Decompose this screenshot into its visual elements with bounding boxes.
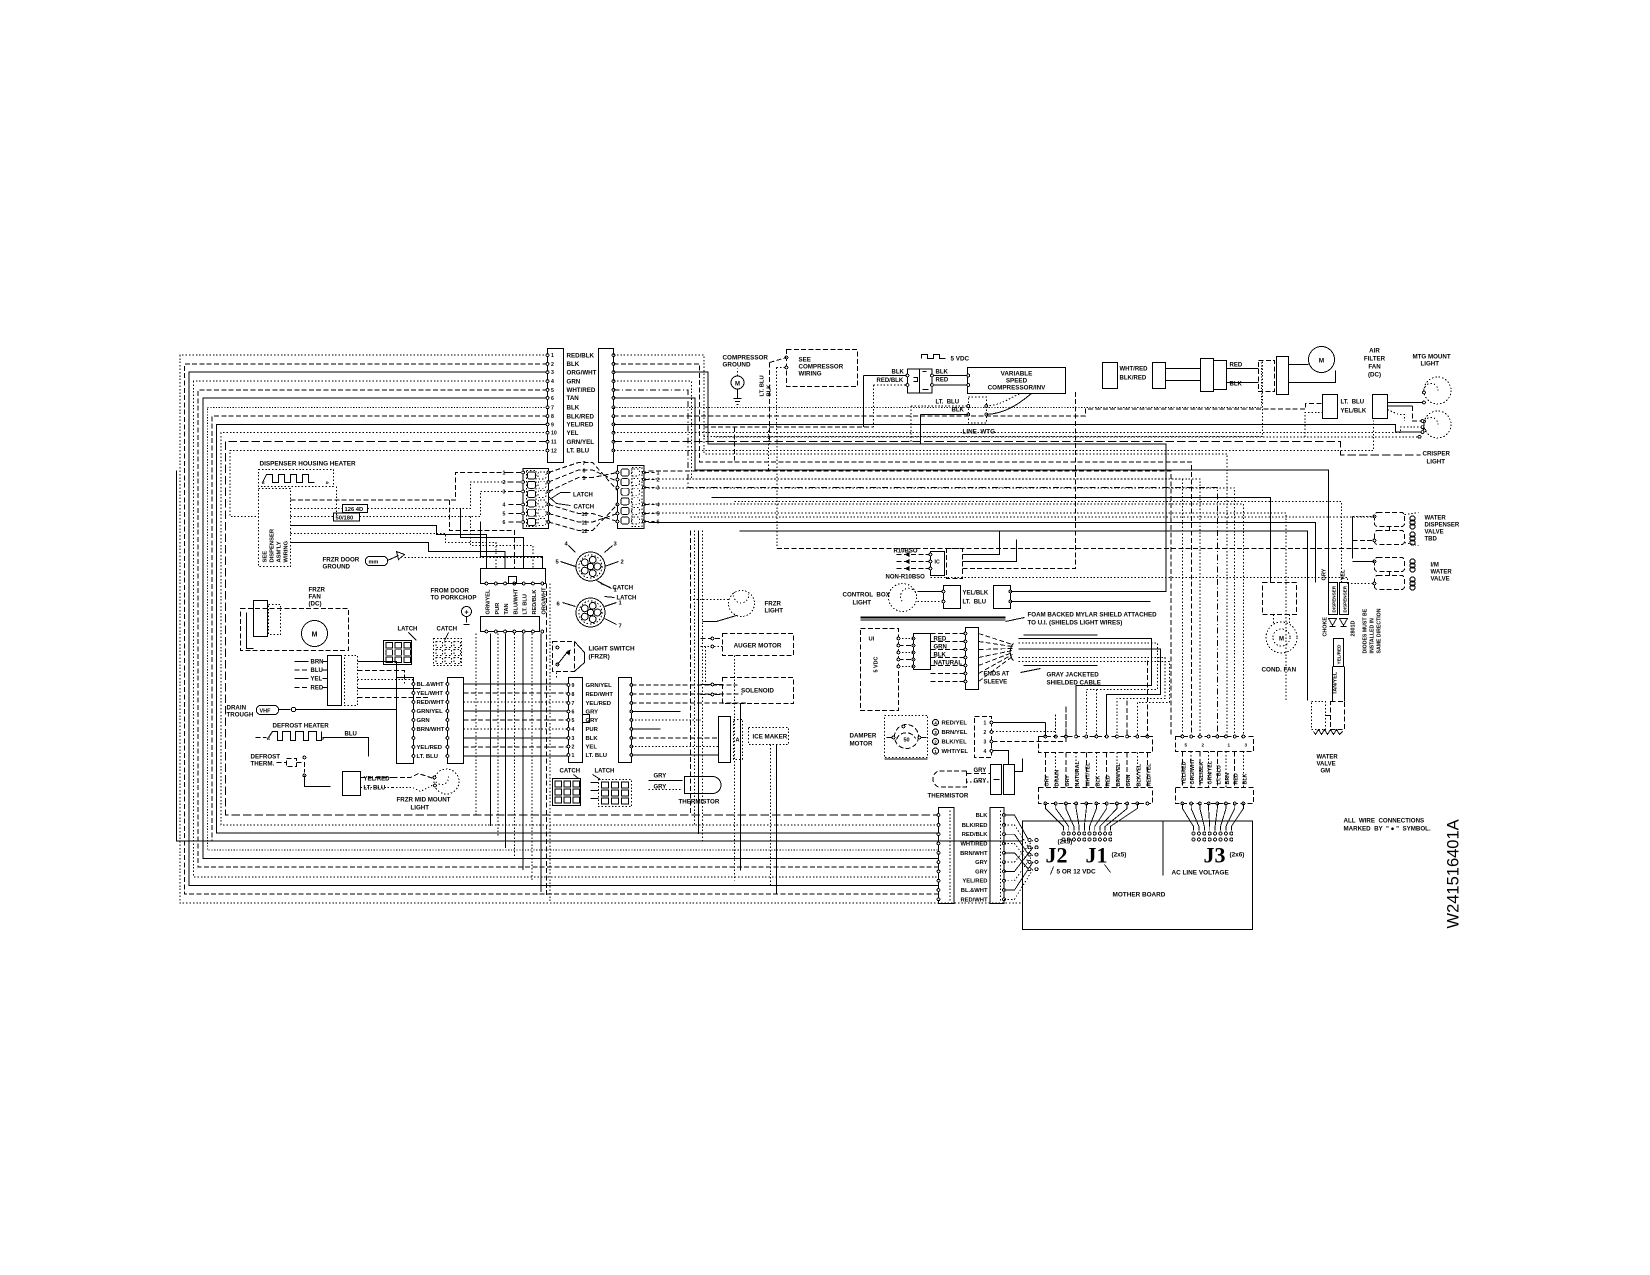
fan-out from P6 to J2 pins — [1004, 815, 1038, 899]
svg-text:FRZR DOOR: FRZR DOOR — [323, 557, 360, 564]
svg-text:SLEEVE: SLEEVE — [984, 680, 1008, 686]
svg-text:INSTALLED IN: INSTALLED IN — [1370, 618, 1376, 654]
svg-text:BL.&WHT: BL.&WHT — [417, 682, 445, 688]
mid band wires from latch connector and risers to right side — [649, 361, 1375, 737]
svg-text:(FRZR): (FRZR) — [589, 654, 610, 661]
svg-text:3: 3 — [551, 370, 554, 376]
mount light bulb 2 (crisper) — [1423, 411, 1451, 438]
svg-text:5: 5 — [551, 388, 554, 394]
svg-text:DRAIN: DRAIN — [227, 705, 247, 712]
bottom connector pins and labels — [937, 813, 1005, 903]
svg-text:VALVE: VALVE — [1425, 530, 1444, 536]
dispenser housing heater element (resistive squiggle on dotted wire) — [259, 470, 337, 517]
svg-text:LT. BLU: LT. BLU — [567, 448, 590, 455]
svg-text:SEE: SEE — [263, 551, 269, 563]
svg-text:6: 6 — [551, 396, 554, 402]
svg-text:LINE WTG: LINE WTG — [963, 429, 996, 436]
DEFROST HEATER label and zigzag element — [256, 723, 369, 757]
ALL WIRE CONNECTIONS note — [1344, 818, 1431, 833]
svg-text:WIRING: WIRING — [284, 540, 290, 562]
SEE COMPRESSOR WIRING dashed box — [785, 350, 857, 387]
riser wires dropping from top band mid-page — [735, 427, 777, 548]
door harness connector upper body — [481, 569, 546, 585]
svg-text:CATCH: CATCH — [613, 586, 634, 592]
VARIABLE SPEED COMPRESSOR/INV box — [968, 368, 1066, 394]
svg-text:WATER: WATER — [1431, 570, 1453, 576]
svg-text:8: 8 — [572, 692, 575, 698]
svg-text:BLK/RED: BLK/RED — [962, 823, 988, 829]
svg-text:BLK: BLK — [567, 361, 580, 368]
svg-text:5: 5 — [503, 512, 506, 518]
svg-text:TAN: TAN — [504, 603, 510, 614]
svg-text:RED/BLK: RED/BLK — [962, 832, 989, 838]
DAMPER MOTOR label — [850, 733, 877, 748]
svg-text:GRAY JACKETED: GRAY JACKETED — [1047, 672, 1100, 679]
vertical wires above J1 connector — [1046, 661, 1148, 737]
svg-text:YEL/WHT: YEL/WHT — [417, 691, 444, 697]
svg-text:SHIELDED CABLE: SHIELDED CABLE — [1047, 680, 1101, 687]
svg-text:ICE MAKER: ICE MAKER — [753, 734, 788, 741]
svg-text:5 OR 12 VDC: 5 OR 12 VDC — [1057, 869, 1096, 876]
U.I. dashed box — [861, 629, 899, 711]
svg-text:MOTHER BOARD: MOTHER BOARD — [1113, 892, 1166, 899]
svg-text:12: 12 — [582, 529, 588, 535]
svg-text:VALVE: VALVE — [1317, 762, 1336, 768]
svg-text:THERMISTOR: THERMISTOR — [928, 793, 969, 800]
gray jacketed shielded cable (trumpet + nested loops) — [979, 634, 1170, 737]
svg-text:GRY: GRY — [586, 718, 599, 724]
svg-text:GRY: GRY — [1322, 568, 1328, 580]
svg-text:CATCH: CATCH — [560, 769, 581, 775]
wires from freezer fan connector to center — [358, 662, 431, 698]
svg-text:4: 4 — [572, 727, 575, 733]
J1 harness wire labels (vertical) — [1045, 761, 1153, 787]
svg-text:RED: RED — [936, 378, 949, 384]
svg-text:YEL/RED: YEL/RED — [586, 701, 612, 707]
svg-text:YEL/RED: YEL/RED — [962, 879, 987, 885]
svg-text:FROM DOOR: FROM DOOR — [431, 588, 470, 595]
svg-text:RED/YEL: RED/YEL — [942, 721, 968, 727]
connector P2 body — [599, 349, 614, 463]
svg-text:COMPRESSOR: COMPRESSOR — [799, 364, 844, 371]
svg-text:LT. BLU: LT. BLU — [523, 594, 529, 614]
svg-text:THERM.: THERM. — [251, 761, 275, 768]
svg-text:5: 5 — [572, 718, 575, 724]
extra frame wire: solid L from mid-left down to long solid bottom line — [177, 471, 1023, 842]
AUGER MOTOR box — [723, 634, 794, 656]
svg-text:+: + — [464, 610, 468, 617]
wire harness: 12 wires from connector P1 looping down left side to bottom connector — [180, 355, 1023, 903]
compressor ground symbol — [731, 369, 744, 405]
svg-text:4: 4 — [503, 503, 506, 509]
LATCH label (mid pair) — [550, 493, 593, 500]
svg-text:LT. BLU: LT. BLU — [586, 753, 607, 759]
svg-text:VARIABLE: VARIABLE — [1001, 371, 1033, 378]
svg-text:TAN: TAN — [567, 395, 580, 402]
connector pair 2 — [1153, 363, 1201, 389]
svg-text:RED/BLK: RED/BLK — [877, 378, 904, 384]
freezer fan wire labels BRN BLU YEL RED — [295, 660, 328, 692]
J3 harness upper connector (dashed) — [1176, 735, 1254, 751]
svg-text:LIGHT: LIGHT — [411, 805, 430, 812]
svg-text:R10BSO: R10BSO — [894, 549, 918, 555]
crossing wires between latch and catch with pin numbers 7-12 — [549, 461, 618, 535]
FRZR DOOR GROUND label and ground lug — [323, 552, 544, 571]
svg-text:1: 1 — [984, 721, 987, 727]
svg-text:DEFROST: DEFROST — [251, 754, 281, 761]
CHOKE label and diodes — [1323, 617, 1357, 637]
svg-text:(2x6): (2x6) — [1230, 852, 1245, 859]
svg-text:9: 9 — [551, 422, 554, 428]
svg-text:WHT/RED: WHT/RED — [567, 387, 596, 394]
FRZR LIGHT bulb — [691, 591, 784, 622]
compressor area lower wires — [704, 427, 1420, 437]
svg-text:2: 2 — [984, 730, 987, 736]
svg-text:5 VDC: 5 VDC — [951, 356, 970, 363]
svg-text:DEFROST HEATER: DEFROST HEATER — [273, 723, 330, 730]
SEE DISPENSER ASM'LY WIRING box (vertical text) — [259, 489, 291, 567]
wires relay to VS box — [864, 374, 970, 427]
svg-text:GRN: GRN — [417, 718, 430, 724]
center connector CC2 body — [619, 678, 632, 763]
svg-text:YEL/RED: YEL/RED — [567, 422, 594, 429]
svg-text:6: 6 — [503, 520, 506, 526]
freezer fan connector pair — [328, 656, 358, 706]
FROM DOOR TO PORKCHOP label — [431, 588, 477, 602]
svg-text:BLK/YEL: BLK/YEL — [942, 740, 968, 746]
svg-text:5: 5 — [657, 512, 660, 518]
svg-text:(2x5): (2x5) — [1112, 852, 1127, 859]
J1 harness lower connector (dashed) — [1039, 753, 1153, 805]
svg-text:LATCH: LATCH — [595, 769, 615, 775]
svg-text:12: 12 — [551, 449, 557, 455]
svg-text:4: 4 — [657, 503, 660, 509]
svg-text:WATER: WATER — [1317, 755, 1339, 761]
svg-text:NON-R10BSO: NON-R10BSO — [886, 575, 926, 581]
center-left connector pins and labels — [412, 682, 449, 760]
svg-text:50/180: 50/180 — [336, 516, 354, 522]
svg-text:WHT/RED: WHT/RED — [1120, 367, 1149, 373]
porkchop ground symbol — [462, 607, 472, 625]
svg-text:BRN/YEL: BRN/YEL — [1116, 762, 1122, 786]
svg-text:LIGHT: LIGHT — [853, 600, 872, 607]
svg-text:SEE: SEE — [799, 357, 811, 364]
svg-text:DIODES MUST BE: DIODES MUST BE — [1363, 608, 1369, 653]
main thermistor pill — [928, 768, 991, 800]
bottom connector P6 body — [990, 808, 1004, 904]
svg-text:mm: mm — [369, 560, 379, 566]
center-left connector CL2 body — [448, 678, 464, 764]
J3 fan-out wires to board pins — [1183, 804, 1244, 842]
svg-text:3: 3 — [657, 486, 660, 492]
thermistor connector pair — [991, 759, 1023, 795]
J3 harness lower connector (dashed) — [1176, 752, 1254, 805]
SOLENOID box — [723, 678, 794, 704]
LT. BLU vertical label near compressor — [760, 358, 787, 445]
CATCH label (mid pair) — [549, 497, 595, 511]
svg-text:BLK/RED: BLK/RED — [567, 413, 595, 420]
svg-text:GRN: GRN — [567, 378, 581, 385]
svg-text:RED/WHT: RED/WHT — [417, 700, 445, 706]
bottom connector P5 body — [939, 808, 955, 904]
svg-text:«: « — [267, 736, 271, 743]
DEFROST THERM label and thermostat symbol — [251, 754, 331, 787]
stair wires from dispenser box down into door connector — [291, 500, 543, 569]
P1 pin circles and numbers — [546, 353, 557, 454]
round connector B (8-pin) — [557, 598, 623, 630]
door harness wire labels (vertical) — [486, 587, 548, 615]
CRISPER LIGHT label — [1423, 451, 1451, 466]
CONTROL BOX LIGHT bulb — [843, 584, 917, 612]
svg-text:RED/WHT: RED/WHT — [960, 897, 988, 903]
svg-text:I/M: I/M — [1431, 563, 1439, 569]
I/M water valve assembly — [1348, 558, 1416, 591]
svg-text:BRN: BRN — [311, 660, 324, 666]
svg-text:2801D: 2801D — [1351, 621, 1357, 637]
svg-text:YEL/BLK: YEL/BLK — [963, 591, 989, 597]
svg-text:RED/BLK: RED/BLK — [532, 590, 538, 615]
svg-text:2: 2 — [503, 480, 506, 486]
svg-text:AC LINE VOLTAGE: AC LINE VOLTAGE — [1172, 870, 1230, 877]
svg-text:FRZR: FRZR — [765, 601, 782, 608]
svg-text:2: 2 — [1202, 743, 1205, 748]
svg-text:TAN/YEL: TAN/YEL — [1333, 671, 1339, 694]
square wave symbol + 5 VDC — [922, 355, 970, 363]
LT. BLU / YEL/BLK connectors to lights — [1305, 395, 1425, 439]
svg-text:BLK: BLK — [567, 405, 580, 412]
MTG MOUNT LIGHT label — [1413, 354, 1451, 368]
svg-text:WHT/YEL: WHT/YEL — [942, 749, 969, 755]
wires down from door connector to bottom bundle — [476, 634, 541, 893]
svg-text:ASM'LY: ASM'LY — [277, 541, 283, 562]
svg-text:FAN: FAN — [309, 594, 322, 601]
svg-text:LT. BLU: LT. BLU — [760, 375, 766, 396]
freezer fan motor (dashed box with motor circle) — [241, 601, 349, 651]
svg-text:CRISPER: CRISPER — [1423, 451, 1451, 458]
LINE WTG connector — [911, 394, 1031, 445]
svg-text:BLK/RED: BLK/RED — [1120, 376, 1147, 382]
svg-text:GRY: GRY — [975, 869, 987, 875]
air filter fan motor circle — [1289, 347, 1336, 383]
svg-text:FOAM BACKED MYLAR SHIELD ATTAC: FOAM BACKED MYLAR SHIELD ATTACHED — [1028, 612, 1158, 619]
svg-text:WIRING: WIRING — [799, 371, 822, 378]
center vertical risers to bottom bundle — [691, 531, 777, 895]
ice maker connector column — [719, 717, 743, 763]
connector P1 body — [548, 349, 564, 463]
svg-text:LT. BLU: LT. BLU — [936, 400, 960, 406]
svg-text:LT. BLU: LT. BLU — [364, 786, 386, 792]
svg-text:DISPENSER: DISPENSER — [1343, 585, 1348, 612]
svg-text:TROUGH: TROUGH — [227, 712, 254, 719]
FRZR MID MOUNT LIGHT bulb and label — [393, 769, 460, 812]
center connector CC1 body — [569, 678, 583, 763]
round connector A (8-pin) with pin numbers — [556, 542, 624, 594]
DRAIN TROUGH label and heater element — [227, 705, 397, 719]
latch connector L (12-pin grid) — [522, 469, 550, 529]
svg-text:LIGHT: LIGHT — [1421, 361, 1440, 368]
svg-text:SAME DIRECTION: SAME DIRECTION — [1377, 608, 1383, 653]
svg-text:J2: J2 — [1046, 843, 1068, 868]
svg-text:126 4D: 126 4D — [345, 507, 364, 513]
damper motor body — [885, 716, 928, 760]
svg-text:DAMPER: DAMPER — [850, 733, 877, 740]
WATER DISPENSER VALVE TBD label — [1425, 516, 1460, 543]
svg-text:BLU/WHT: BLU/WHT — [513, 588, 519, 614]
svg-text:SPEED: SPEED — [1006, 378, 1028, 385]
control box light connectors — [918, 586, 1167, 609]
thermistor (freezer) pill symbol — [649, 774, 722, 806]
U.I. connector small — [897, 634, 930, 670]
center-left connector CL1 body — [397, 678, 414, 764]
DIODES MUST BE INSTALLED IN SAME DIRECTION note (rotated) — [1363, 608, 1383, 653]
svg-text:RED: RED — [1230, 363, 1243, 369]
svg-text:LATCH: LATCH — [398, 627, 418, 633]
P2 pin circles — [612, 354, 615, 452]
svg-text:J1: J1 — [1086, 843, 1108, 868]
svg-text:COMPRESSOR/INV: COMPRESSOR/INV — [988, 385, 1047, 392]
R10BSO component — [886, 391, 1076, 581]
svg-text:DISPENSER: DISPENSER — [1425, 523, 1460, 529]
svg-text:ENDS AT: ENDS AT — [984, 672, 1010, 678]
svg-text:GRN/YEL: GRN/YEL — [417, 709, 444, 715]
svg-text:COND. FAN: COND. FAN — [1262, 667, 1297, 674]
svg-text:1: 1 — [503, 471, 506, 477]
svg-text:J3: J3 — [1204, 843, 1226, 868]
ENDS AT SLEEVE label — [984, 672, 1010, 686]
svg-text:2: 2 — [572, 745, 575, 751]
LIGHT SWITCH (FRZR) label — [589, 646, 636, 661]
svg-text:CATCH: CATCH — [437, 627, 458, 633]
GRY YEL vertical labels — [1322, 568, 1347, 580]
COND. FAN assembly — [1262, 561, 1298, 674]
svg-text:YEL/BLK: YEL/BLK — [1341, 409, 1367, 415]
dispenser wire 1 (dashed) to latch — [291, 473, 509, 501]
wires from CL2 right to center column CC1 — [464, 684, 569, 756]
svg-text:MOTOR: MOTOR — [850, 741, 873, 748]
wire color labels between P1 and P2 — [567, 352, 597, 454]
svg-text:YEL: YEL — [1341, 569, 1347, 580]
svg-text:THERMISTOR: THERMISTOR — [679, 799, 720, 806]
center connector pins, numbers and labels — [567, 683, 633, 759]
svg-text:COMPRESSOR: COMPRESSOR — [723, 355, 769, 362]
svg-text:8: 8 — [551, 414, 554, 420]
svg-text:9: 9 — [572, 683, 575, 689]
catch R pin numbers 1-6 and right stubs — [644, 471, 660, 526]
svg-text:RED/BLK: RED/BLK — [567, 352, 595, 359]
wires from left risers to middle latch connector — [503, 471, 524, 527]
svg-text:GROUND: GROUND — [723, 362, 751, 369]
svg-text:DISPENSER: DISPENSER — [1332, 585, 1337, 612]
svg-text:DISPENSER HOUSING HEATER: DISPENSER HOUSING HEATER — [260, 461, 356, 468]
svg-text:LIGHT SWITCH: LIGHT SWITCH — [589, 646, 636, 653]
svg-text:TBD: TBD — [1425, 537, 1438, 543]
LATCH grid connector (left-mid) — [384, 627, 418, 665]
5 OR 12 VDC note — [1051, 865, 1111, 876]
catch connector R (12-pin grid) — [616, 466, 645, 529]
svg-text:FILTER: FILTER — [1364, 356, 1386, 363]
connector WHT/RED-BLK/RED pair 1 — [1103, 363, 1149, 389]
J3 harness labels (vertical) — [1182, 758, 1249, 784]
svg-text:7: 7 — [551, 405, 554, 411]
svg-text:LIGHT: LIGHT — [765, 608, 784, 615]
J1 fan-out wires to board pins — [1046, 804, 1138, 842]
svg-text:WHT/RED: WHT/RED — [960, 842, 987, 848]
svg-text:BLU: BLU — [311, 668, 323, 674]
svg-text:RED/WHT: RED/WHT — [586, 692, 614, 698]
svg-text:PUR: PUR — [495, 603, 501, 615]
wires into auger/solenoid from left — [701, 637, 723, 696]
water dispenser valve assembly — [1353, 513, 1419, 559]
tall risers x=545,549 from door area to bottom — [546, 584, 550, 904]
svg-text:YEL: YEL — [567, 430, 579, 437]
svg-text:GRN/YEL: GRN/YEL — [567, 439, 595, 446]
svg-text:M: M — [735, 382, 740, 388]
damper motor connector — [975, 717, 993, 758]
svg-text:6: 6 — [572, 710, 575, 716]
svg-text:TO U.I. (SHIELDS LIGHT WIRES): TO U.I. (SHIELDS LIGHT WIRES) — [1028, 620, 1123, 627]
svg-text:11: 11 — [551, 440, 557, 446]
svg-text:10: 10 — [582, 512, 588, 518]
svg-text:GRN/YEL: GRN/YEL — [486, 589, 492, 614]
U.I. output connector bar — [931, 628, 979, 690]
mount light bulb 1 — [1423, 377, 1451, 404]
svg-text:2: 2 — [551, 362, 554, 368]
svg-text:YEL/RED: YEL/RED — [1337, 644, 1342, 665]
svg-text:CONTROL BOX: CONTROL BOX — [843, 592, 891, 599]
svg-text:1: 1 — [551, 353, 554, 359]
svg-text:AIR: AIR — [1369, 348, 1380, 355]
svg-text:MARKED BY " ● " SYMBOL.: MARKED BY " ● " SYMBOL. — [1344, 826, 1431, 833]
svg-text:VHF: VHF — [260, 709, 272, 715]
svg-text:RED: RED — [311, 685, 324, 691]
svg-text:5 VDC: 5 VDC — [874, 657, 880, 673]
svg-text:CATCH: CATCH — [574, 505, 595, 511]
CATCH grid connector (left-mid, dotted) — [434, 627, 462, 666]
svg-text:(2x5): (2x5) — [1058, 839, 1073, 846]
dispenser solenoid boxes (vertical, with text) — [1329, 583, 1349, 615]
svg-text:10: 10 — [551, 431, 557, 437]
COMPRESSOR GROUND label — [723, 355, 769, 369]
svg-text:(DC): (DC) — [309, 601, 322, 608]
svg-text:FRZR MID MOUNT: FRZR MID MOUNT — [397, 797, 451, 804]
svg-text:GRN/YEL: GRN/YEL — [586, 683, 613, 689]
svg-text:BRN/WHT: BRN/WHT — [960, 851, 988, 857]
svg-text:FAN: FAN — [1368, 364, 1381, 371]
ICE MAKER box — [749, 728, 789, 745]
svg-text:BLU: BLU — [345, 732, 357, 738]
FRZR FAN (DC) label — [309, 587, 326, 608]
freezer light connector with YEL/RED LT.BLU labels — [343, 772, 393, 796]
svg-text:BLK: BLK — [586, 736, 599, 742]
svg-text:M: M — [1319, 358, 1324, 365]
svg-text:WATER: WATER — [1425, 516, 1447, 522]
svg-text:YEL: YEL — [311, 677, 323, 683]
svg-text:BLK: BLK — [952, 408, 965, 414]
door harness connector lower body — [481, 617, 544, 633]
svg-text:4: 4 — [551, 379, 554, 385]
connector pair 3 (double) — [1201, 359, 1259, 392]
svg-text:MTG MOUNT: MTG MOUNT — [1413, 354, 1451, 361]
svg-text:GM: GM — [1321, 769, 1331, 775]
mylar shield bar (long line) — [861, 618, 1006, 621]
svg-text:FRZR: FRZR — [309, 587, 326, 594]
svg-text:UI: UI — [869, 637, 875, 643]
svg-text:VALVE: VALVE — [1431, 577, 1450, 583]
svg-text:AUGER MOTOR: AUGER MOTOR — [734, 643, 782, 650]
svg-text:SOLENOID: SOLENOID — [741, 688, 774, 695]
fuse 126 4D — [291, 482, 509, 513]
GRAY JACKETED SHIELDED CABLE label — [1021, 669, 1101, 687]
